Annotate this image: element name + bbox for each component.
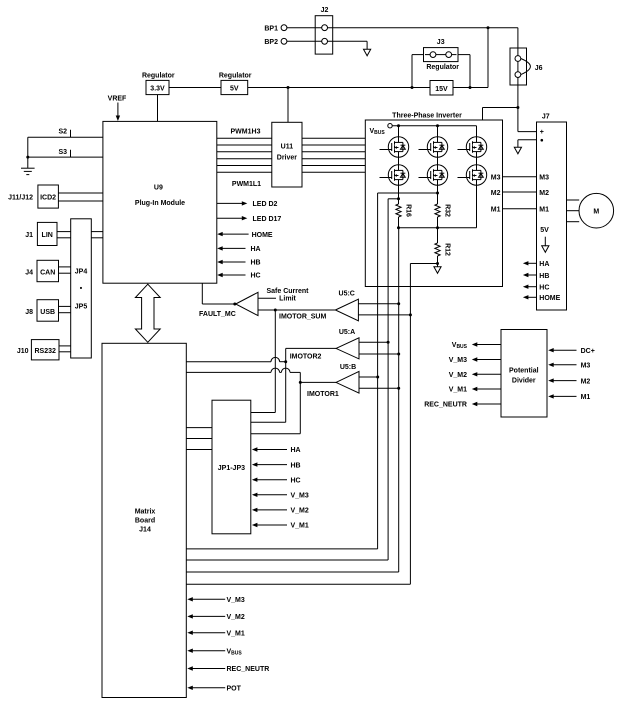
wire to safe current limit label: [258, 297, 276, 299]
wire shunt rail: [399, 227, 477, 229]
wire IMOTOR1: [300, 381, 336, 383]
wire M1 to J7: [503, 208, 537, 210]
board J14 Matrix Board: [102, 343, 186, 697]
transistor Q2 top (leg 2 high side): [427, 137, 447, 157]
svg-text:V_M3: V_M3: [449, 357, 467, 364]
wire matrix to IMOTOR2 with jumps: [186, 361, 271, 363]
switch S3: [70, 150, 72, 157]
svg-text:VBUS: VBUS: [370, 128, 386, 136]
wire J7 to motor b: [567, 210, 580, 212]
net VBUS out of Potential Divider: [472, 342, 478, 346]
wire M3 to J7: [503, 176, 537, 178]
svg-text:REC_NEUTR: REC_NEUTR: [227, 666, 270, 673]
net V_M3 into Matrix Board: [187, 597, 193, 601]
svg-text:RS232: RS232: [34, 348, 56, 355]
junction shunt rail left: [397, 226, 400, 229]
arrow 5V J7: [544, 237, 546, 247]
svg-text:U9: U9: [154, 185, 163, 192]
svg-text:Board: Board: [135, 518, 155, 525]
jumper block JP1-JP3: [212, 400, 251, 534]
svg-text:IMOTOR_SUM: IMOTOR_SUM: [279, 313, 326, 320]
svg-text:J8: J8: [25, 309, 33, 316]
wire PWM bus U11 to inverter: [302, 137, 365, 139]
wire RS232 to JP a: [59, 345, 71, 347]
svg-text:HB: HB: [251, 260, 261, 267]
switch S2: [70, 130, 72, 137]
junction IMOTOR2: [284, 360, 287, 363]
wire 3.3V to 5V: [169, 87, 221, 89]
svg-text:V_M2: V_M2: [227, 614, 245, 621]
svg-text:M2: M2: [581, 378, 591, 385]
wire JP to U9 b: [91, 237, 103, 239]
wire shunt common bus: [398, 228, 400, 572]
wire U5:B input top: [359, 376, 378, 378]
svg-text:HB: HB: [539, 273, 549, 280]
wire BP2 to J2: [287, 40, 322, 42]
svg-text:J2: J2: [321, 7, 329, 14]
net HB into JP1-JP3: [252, 462, 258, 466]
connector J6 pin 1: [515, 56, 521, 62]
wire J7 aux: [518, 139, 537, 141]
svg-text:M: M: [593, 209, 599, 216]
net HC: [217, 273, 223, 277]
svg-text:HB: HB: [291, 462, 301, 469]
regulator U? 15V: [430, 81, 453, 96]
svg-text:J14: J14: [139, 527, 151, 534]
junction IMOTOR1: [299, 381, 302, 384]
transistor Q1 bottom (leg 1 low side): [388, 165, 408, 185]
wire U5:B input bottom: [359, 387, 399, 389]
wire BP2 drop: [366, 41, 368, 49]
connector J2 pin 1: [322, 25, 328, 31]
junction BP1/regulator rail: [487, 26, 490, 29]
wire M1 tap: [388, 198, 398, 200]
motor M: [579, 193, 614, 228]
junction S3: [26, 156, 29, 159]
svg-text:R12: R12: [444, 243, 451, 256]
wire LIN to JP4 a: [57, 231, 71, 233]
wire M2 tap: [378, 192, 438, 194]
svg-text:Driver: Driver: [277, 155, 298, 162]
svg-text:S3: S3: [58, 149, 67, 156]
wire DC+ into J7: [518, 131, 537, 133]
svg-text:M3: M3: [581, 363, 591, 370]
net V_M2 into JP1-JP3: [252, 508, 258, 512]
wire U5:C input bottom: [358, 314, 410, 316]
transistor Q3 bottom (leg 3 low side): [466, 165, 486, 185]
wire M2 to J7: [503, 191, 537, 193]
svg-text:5V: 5V: [230, 86, 239, 93]
svg-text:LIN: LIN: [42, 232, 53, 239]
svg-text:VBUS: VBUS: [452, 342, 468, 350]
wire R16 to rail: [398, 217, 400, 228]
wire matrix to IMOTOR1 with jumps: [186, 371, 271, 373]
svg-text:HOME: HOME: [252, 232, 273, 239]
connector ICD2: [38, 185, 59, 208]
wire 3.3V to U9: [157, 95, 159, 122]
junction rail leg2: [436, 124, 439, 127]
arrow VREF into U9: [117, 103, 119, 117]
svg-text:U11: U11: [281, 144, 294, 151]
net HC into J7: [523, 285, 529, 289]
svg-text:JP5: JP5: [75, 304, 88, 311]
wire R12 bus: [409, 264, 411, 585]
wire PWM bus U9 to U11: [217, 137, 272, 139]
svg-text:•: •: [80, 286, 83, 293]
wire FAULT_MC: [201, 283, 203, 304]
junction M1 tap: [397, 197, 400, 200]
svg-text:M3: M3: [539, 174, 549, 181]
junction J3 left: [411, 86, 414, 89]
svg-text:PWM1H3: PWM1H3: [231, 129, 261, 136]
net LED D17: [217, 217, 243, 219]
wire IMOTOR2 to JP1-JP3: [251, 421, 286, 423]
wire LIN to JP4 b: [57, 237, 71, 239]
wire 15V rail left: [248, 87, 430, 89]
wire USB to JP a: [59, 305, 71, 307]
svg-text:V_M3: V_M3: [291, 493, 309, 500]
node BP1 terminal: [281, 25, 287, 31]
wire BP1 to J2: [287, 27, 322, 29]
net HC into JP1-JP3: [252, 478, 258, 482]
net M2 into Potential Divider: [548, 378, 554, 382]
net V_M1 out of Potential Divider: [472, 387, 478, 391]
svg-text:V_M1: V_M1: [227, 630, 245, 637]
svg-text:IMOTOR1: IMOTOR1: [307, 391, 339, 398]
svg-text:JP4: JP4: [75, 269, 88, 276]
wire M1 tap bus: [387, 199, 389, 560]
svg-text:V_M2: V_M2: [449, 372, 467, 379]
wire J3 internal: [425, 54, 430, 56]
svg-text:HA: HA: [539, 261, 549, 268]
connector J3 pin 2: [446, 52, 452, 58]
wire IMOTOR2: [286, 347, 336, 349]
wire matrix to JP1-JP3 c: [186, 449, 212, 451]
wire mid legs: [398, 157, 400, 165]
svg-text:HOME: HOME: [539, 295, 560, 302]
junction U5:C bottom: [409, 313, 412, 316]
svg-text:FAULT_MC: FAULT_MC: [199, 311, 236, 318]
svg-text:+: +: [540, 129, 544, 136]
svg-text:Matrix: Matrix: [135, 509, 156, 516]
connector USB: [37, 300, 59, 322]
net VBUS into Matrix Board: [187, 649, 193, 653]
svg-text:BP2: BP2: [264, 39, 278, 46]
net V_M1 into JP1-JP3: [252, 523, 258, 527]
svg-text:DC+: DC+: [581, 348, 595, 355]
wire leg1 below: [398, 185, 400, 204]
wire R12 node to bus: [410, 263, 437, 265]
wire DC+ into inverter: [482, 108, 484, 121]
junction R12 bottom: [436, 262, 439, 265]
junction shunt rail mid: [436, 226, 439, 229]
connector J3: [424, 48, 459, 62]
svg-text:15V: 15V: [435, 86, 448, 93]
svg-text:V_M1: V_M1: [449, 387, 467, 394]
connector CAN: [37, 260, 59, 281]
svg-text:J4: J4: [25, 269, 33, 276]
svg-text:M1: M1: [581, 394, 591, 401]
net V_M3 into JP1-JP3: [252, 493, 258, 497]
wire IMOTOR_SUM to JP1-JP3: [274, 310, 276, 413]
svg-text:Divider: Divider: [512, 378, 536, 385]
jumper block JP4-JP5: [71, 219, 92, 358]
module U9: [103, 121, 217, 283]
net M1 into Potential Divider: [548, 394, 554, 398]
ground: [21, 167, 35, 169]
svg-text:V_M3: V_M3: [227, 597, 245, 604]
svg-text:J10: J10: [17, 348, 29, 355]
regulator U? 5V: [221, 80, 248, 94]
connector J6: [510, 48, 527, 85]
junction FAULT_MC: [233, 303, 236, 306]
svg-text:J11/J12: J11/J12: [8, 194, 33, 201]
svg-text:PWM1L1: PWM1L1: [232, 181, 261, 188]
bus arrow U9 to Matrix Board: [135, 284, 160, 342]
connector LIN: [37, 222, 57, 245]
wire VBUS rail: [392, 125, 476, 127]
net V_M3 out of Potential Divider: [472, 357, 478, 361]
net V_M2 into Matrix Board: [187, 614, 193, 618]
resistor R32: [435, 204, 440, 217]
net V_M1 into Matrix Board: [187, 631, 193, 635]
wire DC+ drop to regulator rail: [487, 28, 489, 88]
wire CAN to JP b: [59, 272, 71, 274]
svg-text:HA: HA: [291, 447, 301, 454]
wire J6 internal: [517, 48, 519, 56]
open arrow BP2: [364, 49, 371, 56]
net HB: [217, 260, 223, 264]
wire J6 to J7: [517, 85, 519, 132]
net DC+ into Potential Divider: [548, 348, 554, 352]
wire J7 to motor a: [567, 199, 580, 201]
open arrow J7 aux: [514, 147, 521, 154]
svg-text:LED D2: LED D2: [253, 201, 278, 208]
wire legs to top MOSFETs: [398, 126, 400, 137]
svg-text:CAN: CAN: [40, 269, 55, 276]
resistor R16: [396, 204, 401, 217]
wire IMOTOR1 to JP1-JP3: [299, 372, 301, 433]
wire switches common: [27, 137, 29, 168]
svg-text:Potential: Potential: [509, 367, 539, 374]
transistor Q2 bottom (leg 2 low side): [427, 165, 447, 185]
junction DC+: [516, 106, 519, 109]
connector J3 pin 1: [430, 52, 436, 58]
wire BP1 rail: [328, 27, 518, 29]
svg-text:Regulator: Regulator: [142, 73, 175, 80]
svg-text:ICD2: ICD2: [40, 194, 56, 201]
svg-text:Regulator: Regulator: [219, 73, 252, 80]
wire ICD2 to U9 a: [58, 192, 103, 194]
svg-text:IMOTOR2: IMOTOR2: [290, 353, 322, 360]
wire DC+ drop to J6: [517, 28, 519, 48]
wire U5:A input bottom: [359, 353, 399, 355]
svg-text:M2: M2: [491, 190, 501, 197]
block Potential Divider: [501, 330, 547, 418]
junction U5:B top: [376, 376, 379, 379]
gate stubs: [380, 149, 389, 151]
svg-text:USB: USB: [40, 309, 55, 316]
wire BP2 out: [328, 40, 368, 42]
svg-text:VREF: VREF: [108, 96, 127, 103]
junction U5:A bottom: [397, 353, 400, 356]
wire CAN to JP a: [59, 266, 71, 268]
wire R32 junction to R12: [437, 228, 439, 243]
net V_M2 out of Potential Divider: [472, 372, 478, 376]
junction U5:A top: [387, 341, 390, 344]
svg-text:J7: J7: [542, 113, 550, 120]
svg-text:Regulator: Regulator: [426, 64, 459, 71]
net HA into J7: [523, 261, 529, 265]
svg-text:M1: M1: [491, 207, 501, 214]
wire IMOTOR_SUM: [258, 309, 335, 311]
node VBUS terminal: [388, 124, 392, 128]
junction M2 tap: [436, 192, 439, 195]
svg-text:J3: J3: [437, 39, 445, 46]
junction U5:C top: [397, 302, 400, 305]
net POT into Matrix Board: [187, 686, 193, 690]
svg-text:R32: R32: [444, 204, 451, 217]
wire JP to U9 a: [91, 231, 103, 233]
svg-text:3.3V: 3.3V: [150, 86, 165, 93]
connector RS232: [31, 340, 59, 360]
svg-text:5V: 5V: [540, 227, 549, 234]
net HB into J7: [523, 273, 529, 277]
net REC_NEUTR out of Potential Divider: [472, 402, 478, 406]
svg-text:HC: HC: [251, 273, 261, 280]
net LED D2: [217, 202, 243, 204]
svg-text:R16: R16: [405, 204, 412, 217]
regulator U? 3.3V: [146, 80, 169, 94]
svg-text:HC: HC: [291, 477, 301, 484]
svg-text:Safe Current: Safe Current: [266, 288, 309, 295]
svg-text:BP1: BP1: [264, 25, 278, 32]
junction J3 right: [469, 86, 472, 89]
wire M2 tap bus: [377, 193, 379, 549]
svg-text:HA: HA: [251, 246, 261, 253]
driver U11: [272, 122, 302, 187]
svg-text:U5:C: U5:C: [339, 290, 355, 297]
op-amp U5:B: [336, 371, 359, 393]
svg-text:J1: J1: [25, 232, 33, 239]
junction U5:B bottom: [397, 387, 400, 390]
net HA into JP1-JP3: [252, 447, 258, 451]
svg-text:V_M1: V_M1: [291, 523, 309, 530]
svg-text:U5:B: U5:B: [340, 364, 356, 371]
connector J2: [315, 16, 333, 54]
wire RS232 to JP b: [59, 351, 71, 353]
op-amp U5:A: [336, 338, 359, 359]
junction 5V rail to driver: [287, 86, 290, 89]
svg-text:Limit: Limit: [279, 296, 296, 303]
net REC_NEUTR into Matrix Board: [187, 666, 193, 670]
svg-text:M2: M2: [539, 190, 549, 197]
connector J2 pin 2: [322, 38, 328, 44]
wire R12 bottom: [437, 256, 439, 264]
node BP2 terminal: [281, 38, 287, 44]
svg-text:POT: POT: [227, 686, 242, 693]
transistor Q1 top (leg 1 high side): [388, 137, 408, 157]
svg-text:U5:A: U5:A: [339, 329, 355, 336]
svg-text:Three-Phase Inverter: Three-Phase Inverter: [392, 113, 462, 120]
comparator safe current limit: [236, 292, 258, 315]
svg-text:J6: J6: [535, 65, 543, 72]
junction rail leg1: [397, 124, 400, 127]
svg-text:Plug-In Module: Plug-In Module: [135, 200, 185, 207]
wire ICD2 to U9 b: [58, 200, 103, 202]
open arrow inverter common: [437, 264, 439, 267]
wire matrix to JP1-JP3 a: [186, 427, 212, 429]
svg-text:S2: S2: [58, 129, 67, 136]
wire matrix to JP1-JP3 b: [186, 438, 212, 440]
wire U5:A input top: [359, 341, 388, 343]
wire USB to JP b: [59, 312, 71, 314]
wire leg2 below: [437, 185, 439, 204]
wire 15V rail right: [453, 87, 488, 89]
pin dot of J7: [541, 139, 544, 142]
op-amp U5:C: [335, 299, 358, 321]
svg-text:VBUS: VBUS: [227, 648, 243, 656]
connector J7: [537, 122, 567, 310]
connector J6 pin 2: [515, 72, 521, 78]
net M3 into Potential Divider: [548, 363, 554, 367]
net HA: [217, 246, 223, 250]
svg-text:HC: HC: [539, 285, 549, 292]
svg-text:JP1-JP3: JP1-JP3: [218, 465, 245, 472]
svg-text:V_M2: V_M2: [291, 508, 309, 515]
wire R32 to rail: [437, 217, 439, 228]
wire 5V to U11: [287, 88, 289, 123]
net HOME: [217, 232, 223, 236]
svg-text:LED D17: LED D17: [253, 216, 282, 223]
svg-text:REC_NEUTR: REC_NEUTR: [424, 402, 467, 409]
block Three-Phase Inverter: [365, 120, 502, 287]
net HOME into J7: [523, 295, 529, 299]
wire J7 to motor c: [567, 221, 580, 223]
svg-text:M1: M1: [539, 207, 549, 214]
wire J3 right leg: [458, 54, 470, 56]
transistor Q3 top (leg 3 high side): [466, 137, 486, 157]
svg-text:M3: M3: [491, 174, 501, 181]
wire U5:C input top: [358, 303, 398, 305]
connector J6 shunt arc: [521, 59, 531, 75]
wire J3 left leg: [412, 54, 424, 56]
junction IMOTOR_SUM: [274, 309, 277, 312]
resistor R12: [435, 243, 440, 256]
wire leg3 below: [476, 185, 478, 228]
